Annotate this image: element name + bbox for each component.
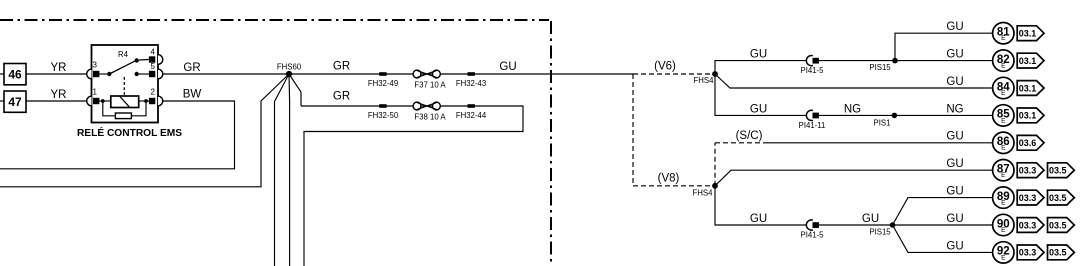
- connector terminal 46: [0, 64, 26, 85]
- svg-text:RELÉ CONTROL EMS: RELÉ CONTROL EMS: [77, 126, 182, 139]
- svg-text:5: 5: [151, 62, 156, 71]
- svg-text:03.5: 03.5: [1049, 166, 1067, 176]
- relay switch contact from pin 3: [99, 72, 111, 76]
- svg-text:F38 10 A: F38 10 A: [414, 113, 446, 122]
- svg-text:(V6): (V6): [654, 61, 676, 73]
- wire FHS60 branch 1 to left exit: [0, 74, 289, 187]
- svg-text:03.6: 03.6: [1019, 138, 1037, 148]
- wire dashed (V6): [633, 61, 715, 75]
- wire PI41-5 to PIS15: [819, 60, 895, 62]
- svg-text:F37 10 A: F37 10 A: [414, 81, 446, 90]
- svg-text:E: E: [1001, 200, 1006, 207]
- svg-text:4: 4: [151, 48, 156, 57]
- wire dashed (S/C) horizontal: [715, 130, 767, 143]
- svg-text:GU: GU: [750, 49, 767, 61]
- inline connector PI41-11: [799, 110, 826, 130]
- terminal 86 pin E: [993, 132, 1014, 153]
- wire YR from 46 to relay pin 3: [26, 62, 87, 74]
- svg-text:FH32-43: FH32-43: [456, 79, 486, 88]
- wire FHS4 diagonal to terminal 87: [715, 158, 993, 186]
- sheet tag 03.3 (89): [1017, 190, 1044, 205]
- svg-text:1: 1: [93, 88, 98, 97]
- svg-text:PIS15: PIS15: [869, 228, 891, 237]
- relay actuator dashed link: [123, 77, 125, 95]
- relay coil junction right: [144, 99, 148, 103]
- svg-text:03.3: 03.3: [1019, 248, 1037, 258]
- relay R4 RELE CONTROL EMS body: [92, 45, 159, 123]
- svg-text:E: E: [1001, 227, 1006, 234]
- svg-text:PI41-5: PI41-5: [801, 231, 825, 240]
- relay switch contact to pin 5: [135, 72, 149, 76]
- sheet tag 03.5 (90): [1048, 218, 1075, 233]
- relay pin bump 3: [87, 69, 92, 79]
- svg-text:GR: GR: [183, 62, 200, 74]
- wire dashed vertical V6-V8: [632, 74, 634, 186]
- wire PIS15 to terminal 90: [893, 213, 993, 225]
- relay pin 5 square: [149, 62, 156, 77]
- inline connector PI41-5: [801, 56, 825, 76]
- svg-text:03.1: 03.1: [1019, 83, 1037, 93]
- wire GR second fused line: [301, 90, 523, 266]
- sheet tag 03.1 (82): [1017, 53, 1044, 68]
- wire PIS15 diagonal up to terminal 89: [893, 186, 993, 225]
- terminal 81 pin E: [993, 23, 1014, 44]
- svg-text:(V8): (V8): [658, 172, 680, 184]
- svg-text:E: E: [1001, 254, 1006, 261]
- svg-text:GR: GR: [333, 61, 350, 73]
- svg-text:PI41-5: PI41-5: [801, 66, 825, 75]
- wire NG PIS1 to terminal 85: [894, 103, 992, 115]
- connector FH32-49: [368, 72, 398, 88]
- svg-text:GU: GU: [946, 131, 963, 143]
- terminal 84 pin E: [993, 77, 1014, 98]
- svg-text:FH32-44: FH32-44: [456, 111, 487, 120]
- svg-text:GU: GU: [750, 213, 767, 225]
- svg-text:E: E: [1001, 172, 1006, 179]
- svg-text:47: 47: [8, 95, 22, 109]
- svg-text:46: 46: [8, 67, 22, 81]
- terminal 90 pin E: [993, 214, 1014, 235]
- svg-text:GU: GU: [946, 21, 963, 33]
- sheet tag 03.1 (84): [1017, 81, 1044, 96]
- svg-text:03.5: 03.5: [1049, 220, 1067, 230]
- svg-text:NG: NG: [844, 103, 861, 115]
- wire GR main line FHS60 to dashed V6: [289, 61, 633, 75]
- wire FHS60 branch 4 to second fused line: [289, 74, 301, 106]
- terminal 89 pin E: [993, 187, 1014, 208]
- node PIS1: [874, 113, 898, 128]
- svg-text:03.1: 03.1: [1019, 29, 1037, 39]
- wire PIS15 diagonal down to terminal 92: [893, 225, 993, 252]
- wire FHS60 branch 3 down: [288, 74, 291, 266]
- wire GU to terminal 86: [767, 131, 993, 143]
- svg-text:YR: YR: [51, 62, 67, 74]
- wire PIS15 up to terminal 81: [895, 21, 993, 60]
- zone boundary dash-dot top: [0, 19, 549, 21]
- node PIS15 (lower): [869, 222, 895, 236]
- relay pin 2 square: [149, 88, 156, 105]
- sheet tag 03.3 (87): [1017, 163, 1044, 178]
- wire dashed (S/C) riser: [714, 143, 716, 186]
- svg-text:E: E: [1001, 117, 1006, 124]
- sheet tag 03.6 (86): [1017, 135, 1044, 150]
- svg-text:PIS1: PIS1: [874, 118, 891, 127]
- fuse F38 10 A: [413, 102, 446, 122]
- relay pin bump 1: [87, 96, 92, 106]
- svg-text:03.5: 03.5: [1049, 193, 1067, 203]
- svg-text:GU: GU: [862, 213, 879, 225]
- sheet tag 03.5 (87): [1048, 163, 1075, 178]
- relay pin bump 4: [158, 55, 163, 65]
- wire BW from relay pin2: [0, 89, 235, 169]
- relay switch arm (3 to 4): [109, 61, 135, 74]
- terminal 85 pin E: [993, 105, 1014, 126]
- svg-text:GU: GU: [499, 61, 516, 73]
- wire FHS4 down-branch V8 trunk: [715, 186, 806, 225]
- connector terminal 47: [0, 91, 26, 112]
- svg-text:3: 3: [93, 60, 98, 69]
- svg-text:03.3: 03.3: [1019, 166, 1037, 176]
- svg-text:FH32-49: FH32-49: [368, 79, 398, 88]
- relay pin 4 square: [149, 48, 156, 63]
- svg-text:03.5: 03.5: [1049, 248, 1067, 258]
- svg-text:PIS15: PIS15: [869, 63, 891, 72]
- svg-text:FH32-50: FH32-50: [368, 111, 399, 120]
- svg-text:03.1: 03.1: [1019, 56, 1037, 66]
- sheet tag 03.1 (81): [1017, 26, 1044, 41]
- wire FHS60 branch 2 down: [275, 74, 290, 266]
- svg-text:E: E: [1001, 90, 1006, 97]
- connector FH32-43: [456, 72, 486, 88]
- svg-text:03.3: 03.3: [1019, 193, 1037, 203]
- wire dashed (V8): [633, 172, 715, 186]
- sheet tag 03.3 (90): [1017, 218, 1044, 233]
- wire GU PI41-5 to PIS15 (lower): [819, 213, 893, 225]
- svg-text:FHS4: FHS4: [694, 76, 715, 85]
- relay parallel resistor loop: [103, 101, 146, 119]
- wire GR relay pin5 to FHS60: [163, 62, 289, 74]
- wire YR from 47 to relay pin 1: [26, 89, 87, 101]
- terminal 87 pin E: [993, 160, 1014, 181]
- svg-text:BW: BW: [183, 89, 202, 101]
- svg-text:R4: R4: [118, 50, 129, 59]
- fuse F37 10 A: [413, 70, 446, 90]
- svg-text:2: 2: [151, 88, 156, 97]
- node FHS4 (V8): [693, 183, 718, 197]
- svg-text:PI41-11: PI41-11: [799, 121, 826, 130]
- terminal 92 pin E: [993, 242, 1014, 263]
- svg-text:FHS60: FHS60: [277, 62, 302, 71]
- relay pin bump 5: [158, 69, 163, 79]
- node FHS60: [277, 62, 302, 77]
- svg-text:GR: GR: [333, 90, 350, 102]
- sheet tag 03.3 (92): [1017, 245, 1044, 260]
- relay pin 1 square: [93, 88, 100, 105]
- relay switch contact to pin 4: [135, 58, 149, 62]
- svg-text:GU: GU: [946, 186, 963, 198]
- svg-text:YR: YR: [51, 89, 67, 101]
- svg-text:GU: GU: [946, 49, 963, 61]
- svg-text:GU: GU: [946, 213, 963, 225]
- svg-text:GU: GU: [946, 158, 963, 170]
- svg-text:03.3: 03.3: [1019, 220, 1037, 230]
- wire FHS4 diagonal to terminal 84: [715, 74, 993, 88]
- terminal 82 pin E: [993, 50, 1014, 71]
- connector FH32-44: [456, 104, 487, 120]
- svg-text:03.1: 03.1: [1019, 111, 1037, 121]
- inline connector PI41-5 (lower): [801, 220, 825, 240]
- node PIS15: [869, 58, 897, 72]
- relay coil: [99, 96, 148, 108]
- svg-text:GU: GU: [750, 103, 767, 115]
- relay pin bump 2: [158, 96, 163, 106]
- svg-text:E: E: [1001, 35, 1006, 42]
- wire FHS4 up-branch to PIS15 (row 82): [715, 49, 806, 74]
- connector FH32-50: [368, 104, 399, 120]
- svg-text:GU: GU: [946, 76, 963, 88]
- node FHS4 (V6): [694, 71, 718, 85]
- sheet tag 03.5 (89): [1048, 190, 1075, 205]
- svg-text:NG: NG: [946, 103, 963, 115]
- svg-text:GU: GU: [946, 240, 963, 252]
- sheet tag 03.1 (85): [1017, 108, 1044, 123]
- zone boundary dash-dot right vertical: [550, 21, 552, 266]
- wire FHS4 down-branch row 85: [715, 74, 806, 115]
- wire PIS15 to terminal 82: [895, 49, 993, 61]
- svg-text:(S/C): (S/C): [736, 130, 763, 142]
- sheet tag 03.5 (92): [1048, 245, 1075, 260]
- relay coil junction left: [101, 99, 105, 103]
- wire NG PI41-11 to PIS1: [819, 103, 895, 115]
- svg-text:FHS4: FHS4: [693, 188, 714, 197]
- svg-text:E: E: [1001, 63, 1006, 70]
- relay pin 3 square: [93, 60, 100, 77]
- svg-text:E: E: [1001, 145, 1006, 152]
